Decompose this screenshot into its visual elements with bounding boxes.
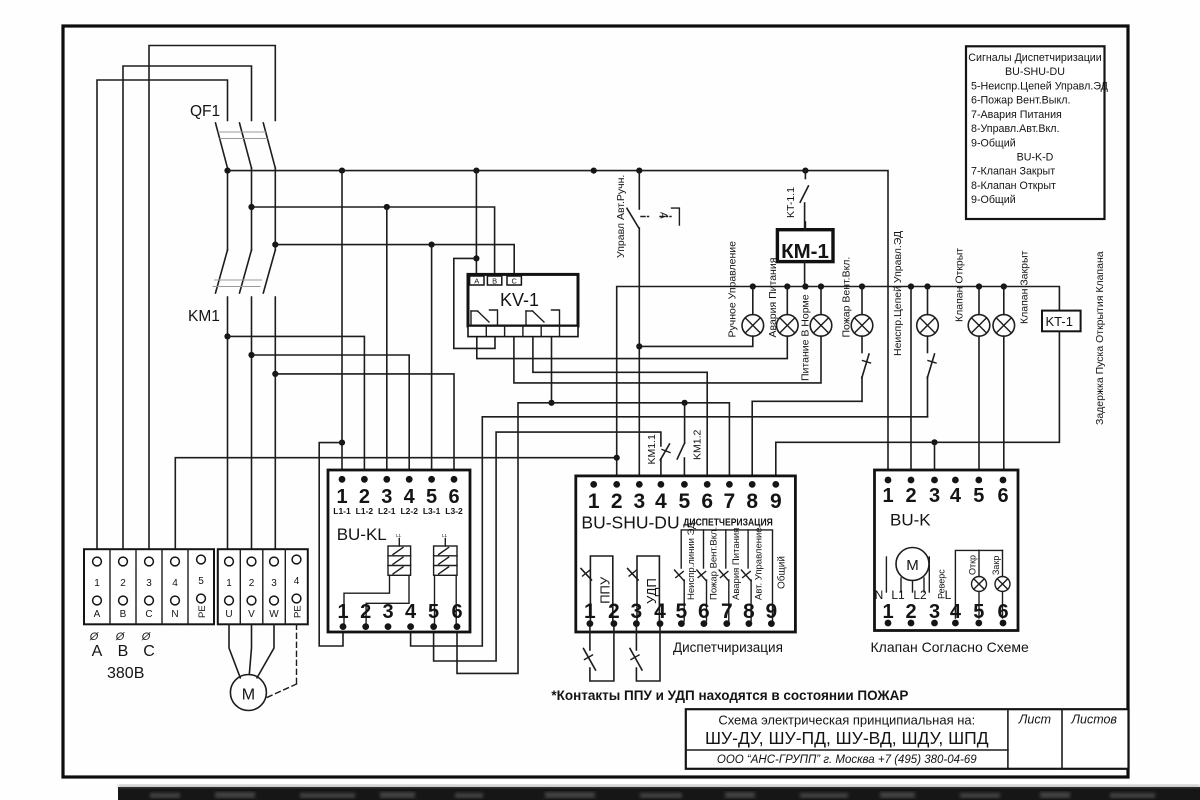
contactor KM1 pole 1 blade bbox=[216, 250, 228, 293]
svg-text:Ø: Ø bbox=[89, 631, 100, 643]
svg-text:A: A bbox=[474, 277, 479, 286]
svg-text:BU-SHU-DU: BU-SHU-DU bbox=[581, 512, 679, 532]
BU-KL bottom terminal numbers bbox=[337, 601, 462, 623]
svg-text:Схема электрическая принципиал: Схема электрическая принципиальная на: bbox=[718, 713, 975, 728]
BU-K top dots bbox=[885, 477, 1007, 484]
BU-KL stack2 left to bottom T5 wire bbox=[434, 575, 436, 626]
svg-text:PE: PE bbox=[293, 605, 304, 618]
svg-text:5: 5 bbox=[428, 601, 439, 623]
contactor KM1 linkage bars bbox=[213, 280, 263, 287]
breaker QF1 pole 3 blade bbox=[263, 123, 275, 168]
BU-KL internal breaker stack 2 bbox=[434, 533, 457, 575]
svg-text:L1-1: L1-1 bbox=[333, 506, 351, 516]
node L3 bus / BU-KL T5 riser bbox=[429, 242, 435, 248]
svg-text:2: 2 bbox=[905, 485, 916, 507]
relay block KV-1 bbox=[468, 274, 578, 326]
BU-SHU-DU top terminal dots bbox=[590, 481, 779, 488]
lamp Pitanie V Norme bbox=[810, 287, 832, 337]
node L1 bus / BU-KL T1 riser bbox=[339, 168, 345, 174]
BU-KL top terminal numbers bbox=[336, 486, 459, 508]
lamp Neispr Tsepey Upravl ED bbox=[917, 287, 939, 337]
switch SA manual-auto blade bbox=[627, 208, 639, 228]
svg-text:4: 4 bbox=[405, 601, 417, 623]
node QF1 pole3 output bbox=[272, 242, 278, 248]
svg-text:Клапан Согласно Схеме: Клапан Согласно Схеме bbox=[871, 639, 1030, 655]
contact KM1.2 blade bbox=[677, 443, 684, 459]
node BU-KL T1 riser branch bbox=[339, 440, 345, 446]
svg-text:Авария Питания: Авария Питания bbox=[767, 258, 779, 338]
wire phase C loop from input terminal 3C to QF1 pole 3 bbox=[149, 46, 275, 550]
svg-text:L1: L1 bbox=[891, 588, 905, 602]
BU-KL stack1 right to bottom T2 wire bbox=[366, 575, 409, 626]
svg-text:KT-1: KT-1 bbox=[1046, 314, 1073, 329]
wire BU-KL T1 branch around block to bottom T1 bbox=[319, 443, 343, 646]
svg-text:С: С bbox=[143, 643, 155, 660]
wire KV-1 A riser bbox=[475, 171, 477, 276]
svg-text:М: М bbox=[242, 687, 255, 704]
contact KM1.1 blade bbox=[660, 444, 670, 460]
svg-text:Листов: Листов bbox=[1070, 713, 1117, 727]
svg-text:C: C bbox=[145, 609, 152, 620]
svg-text:L2: L2 bbox=[913, 588, 927, 602]
wire manual-auto switch column to BU-SHU-DU T3 bbox=[638, 171, 640, 209]
X1 terminal numbers bbox=[94, 576, 204, 589]
wire KV-1 B1 to Avaria Pitaniya lamp bbox=[477, 336, 788, 358]
wire BU-K T3 stub bbox=[934, 442, 936, 480]
svg-text:BU-K: BU-K bbox=[890, 511, 931, 530]
svg-text:1: 1 bbox=[337, 601, 348, 623]
contact KM1.2 stub bbox=[684, 403, 686, 443]
svg-text:ООО “АНС-ГРУПП” г. Москва +7 (: ООО “АНС-ГРУПП” г. Москва +7 (495) 380-0… bbox=[717, 754, 977, 766]
BU-K lamp rail from terminal 4 bbox=[955, 550, 1002, 618]
wire Neispr contact to BU-KL bottom T4 bbox=[411, 417, 928, 646]
breaker QF1 linkage bars bbox=[218, 132, 268, 139]
node N bus / BU-SHU-DU T2 / N line bbox=[614, 455, 620, 461]
BU-K motor terminal labels bbox=[875, 588, 952, 602]
wire X2 V to motor bbox=[249, 624, 251, 674]
svg-text:4: 4 bbox=[654, 600, 666, 623]
svg-text:*Контакты ППУ и УДП находятся: *Контакты ППУ и УДП находятся в состояни… bbox=[551, 688, 908, 703]
contact KT-1.1 stub bbox=[804, 171, 806, 179]
node valve net / BU-K T3 bbox=[931, 439, 937, 445]
svg-text:QF1: QF1 bbox=[190, 103, 220, 120]
svg-text:A: A bbox=[94, 609, 101, 620]
svg-text:6-Пожар Вент.Выкл.: 6-Пожар Вент.Выкл. bbox=[971, 95, 1070, 107]
wire Ruchnoe lamp to switch column bbox=[639, 336, 753, 346]
wire KM1 pole2 to BU-KL T4 bbox=[252, 355, 410, 479]
wire L1 bus after QF1 (y=170.6) to BU-K T1 bbox=[228, 171, 889, 480]
svg-text:Задержка Пуска Открытия Клапан: Задержка Пуска Открытия Клапана bbox=[1094, 251, 1106, 425]
wire KM1.1 to BU-SHU-DU T4 bbox=[660, 459, 662, 484]
svg-text:Реверс: Реверс bbox=[937, 569, 947, 599]
breaker QF1 pole 1 blade bbox=[216, 123, 228, 168]
svg-text:3: 3 bbox=[271, 578, 277, 589]
X1 terminal circles bottom bbox=[93, 594, 206, 605]
wire KV-1 bypass A-branch to KV-1 bottom B1 B2 bbox=[454, 258, 495, 348]
wire KM1 pole1 to BU-KL T2 bbox=[228, 336, 365, 479]
node KM1 pole2 output bbox=[248, 352, 254, 358]
svg-text:380В: 380В bbox=[107, 665, 144, 682]
contact KT-1.1 blade bbox=[800, 186, 808, 202]
BU-K lamp Zakr bbox=[995, 577, 1010, 619]
svg-text:Неиспр.линии ЭД: Неиспр.линии ЭД bbox=[686, 522, 697, 600]
wire N lamp bus bbox=[617, 287, 1060, 485]
wire QF1 pole1 to KM1 pole1 bbox=[227, 168, 229, 250]
motor terminal block X2 bbox=[218, 549, 308, 624]
svg-text:7: 7 bbox=[721, 600, 733, 623]
wire Klapan Otkryt lamp to BU-K T5 bbox=[978, 336, 980, 480]
svg-text:5: 5 bbox=[973, 485, 984, 507]
svg-text:ШУ-ДУ, ШУ-ПД, ШУ-ВД, ШДУ, ШПД: ШУ-ДУ, ШУ-ПД, ШУ-ВД, ШДУ, ШПД bbox=[705, 728, 989, 748]
svg-text:Клапан Закрыт: Клапан Закрыт bbox=[1019, 251, 1031, 324]
svg-text:3: 3 bbox=[631, 600, 643, 623]
svg-text:3: 3 bbox=[146, 578, 152, 589]
svg-text:BU-SHU-DU: BU-SHU-DU bbox=[1005, 66, 1065, 78]
X1 phase crimp symbols bbox=[89, 631, 152, 643]
switch SA dash-dot link and A-symbol bbox=[641, 208, 679, 225]
node KV-1 A branch bbox=[473, 255, 479, 261]
svg-text:Клапан Открыт: Клапан Открыт bbox=[954, 248, 966, 322]
BU-K bottom dots bbox=[885, 620, 1007, 627]
svg-text:2: 2 bbox=[249, 578, 255, 589]
node switch column / ruchnoe lamp bbox=[636, 343, 642, 349]
svg-text:9: 9 bbox=[770, 490, 782, 513]
svg-text:М: М bbox=[906, 557, 919, 574]
svg-text:N: N bbox=[171, 609, 178, 620]
contactor coil KM-1 box bbox=[777, 230, 833, 263]
svg-text:7-Авария Питания: 7-Авария Питания bbox=[971, 109, 1062, 121]
BU-SHU-DU bottom numbers bbox=[584, 600, 777, 623]
X2 terminal circles top bbox=[225, 555, 301, 566]
svg-text:A: A bbox=[658, 212, 669, 219]
node L1 bus / BU-SHU-DU T1 riser bbox=[591, 168, 597, 174]
module BU-KL box bbox=[328, 470, 470, 632]
svg-text:Авария Питания: Авария Питания bbox=[731, 528, 742, 600]
module BU-SHU-DU box bbox=[576, 476, 796, 632]
wire Pozhar contact to BU-SHU-DU T8 bbox=[752, 401, 862, 484]
svg-text:3: 3 bbox=[929, 485, 940, 507]
X2 terminal numbers bbox=[226, 576, 300, 589]
wire X2 U to motor bbox=[229, 624, 240, 678]
KV-1 internal contact 1 bbox=[471, 310, 498, 325]
KV-1 internal contact 2 bbox=[526, 310, 560, 325]
svg-text:2: 2 bbox=[360, 601, 371, 623]
svg-text:6: 6 bbox=[997, 485, 1008, 507]
BU-SHU-DU bottom dots bbox=[587, 620, 775, 627]
svg-text:А: А bbox=[92, 643, 103, 660]
wire KM1 pole3 to BU-KL T6 bbox=[275, 374, 454, 479]
node QF1 pole2 output bbox=[248, 204, 254, 210]
svg-text:1: 1 bbox=[94, 578, 100, 589]
node B5 junction bbox=[548, 400, 554, 406]
label A B C bbox=[92, 643, 155, 660]
svg-text:W: W bbox=[269, 609, 279, 620]
wire QF1 pole3 to KM1 pole3 bbox=[274, 168, 276, 250]
contactor KM1 pole 2 blade bbox=[240, 250, 252, 293]
svg-text:8-Управл.Авт.Вкл.: 8-Управл.Авт.Вкл. bbox=[971, 123, 1060, 135]
svg-text:5: 5 bbox=[679, 490, 691, 513]
svg-text:KM1.1: KM1.1 bbox=[646, 434, 658, 465]
dispatch contact 5 bbox=[675, 570, 685, 621]
wire BU-K T2 from N bus bbox=[910, 287, 912, 481]
external UDP contact below box bbox=[630, 627, 660, 681]
svg-text:V: V bbox=[248, 609, 255, 620]
svg-text:5: 5 bbox=[426, 486, 437, 508]
svg-text:Диспетчиризация: Диспетчиризация bbox=[673, 640, 783, 655]
svg-text:L2-1: L2-1 bbox=[378, 506, 396, 516]
svg-text:Ø: Ø bbox=[141, 631, 152, 643]
svg-text:Закр: Закр bbox=[991, 556, 1001, 575]
svg-text:Ручное Управление: Ручное Управление bbox=[727, 241, 739, 338]
wire Klapan Zakryt lamp to BU-K T6 bbox=[1003, 336, 1005, 480]
svg-text:Пожар Вент.Вкл.: Пожар Вент.Вкл. bbox=[841, 257, 853, 338]
wire KM1 pole1 stub to motor terminal U bbox=[227, 297, 229, 549]
svg-text:Лист: Лист bbox=[1018, 713, 1051, 727]
node L1 bus / KV-1 A riser bbox=[473, 168, 479, 174]
svg-text:Управл Авт.Ручн.: Управл Авт.Ручн. bbox=[615, 175, 627, 258]
node L2 bus / BU-KL T3 riser bbox=[384, 204, 390, 210]
svg-text:2: 2 bbox=[611, 490, 623, 513]
X1 terminal circles top bbox=[93, 555, 206, 566]
wire KT-1 to valve net bbox=[776, 331, 1060, 484]
node KM1 pole1 output bbox=[224, 333, 230, 339]
svg-text:2: 2 bbox=[120, 578, 126, 589]
KV-1 bottom terminal row bbox=[468, 326, 578, 337]
X1 terminal letters bbox=[94, 609, 179, 620]
svg-text:Ø: Ø bbox=[115, 631, 126, 643]
svg-text:KM1: KM1 bbox=[188, 308, 220, 325]
contactor KM1 pole 3 blade bbox=[263, 250, 275, 293]
svg-text:C: C bbox=[511, 277, 517, 286]
wire KM1 pole2 stub to motor terminal V bbox=[251, 297, 253, 549]
svg-text:7-Клапан Закрыт: 7-Клапан Закрыт bbox=[971, 166, 1055, 178]
wire BU-KL T3 riser bbox=[386, 207, 388, 479]
motor M bbox=[230, 675, 266, 711]
wire BU-KL T1 riser bbox=[341, 171, 343, 480]
svg-text:Сигналы Диспетчиризации: Сигналы Диспетчиризации bbox=[968, 52, 1102, 64]
svg-text:1: 1 bbox=[336, 486, 347, 508]
svg-text:BU-K-D: BU-K-D bbox=[1017, 152, 1054, 164]
svg-text:9-Общий: 9-Общий bbox=[971, 194, 1016, 206]
svg-text:Общий: Общий bbox=[776, 556, 788, 589]
svg-text:1: 1 bbox=[588, 490, 600, 513]
dashed PE wire to motor bbox=[267, 624, 297, 697]
dispatch contact 7 bbox=[719, 530, 729, 621]
lamp Klapan Zakryt bbox=[993, 287, 1015, 337]
svg-text:L3-2: L3-2 bbox=[445, 506, 463, 516]
svg-text:L3-1: L3-1 bbox=[423, 506, 441, 516]
wire KT-1.1 to KM-1 bbox=[804, 222, 806, 230]
svg-text:N: N bbox=[875, 588, 884, 602]
svg-text:KM1.2: KM1.2 bbox=[692, 429, 704, 460]
node L1 bus / manual-auto switch bbox=[636, 168, 642, 174]
svg-text:6: 6 bbox=[701, 490, 713, 513]
svg-text:B: B bbox=[120, 609, 127, 620]
lamp Avaria Pitaniya bbox=[777, 287, 799, 337]
svg-text:8: 8 bbox=[746, 490, 758, 513]
node KM1.2 tap bbox=[682, 400, 688, 406]
wire phase B loop from input terminal 2B to QF1 pole 2 bbox=[123, 66, 252, 549]
svg-text:Питание В Норме: Питание В Норме bbox=[800, 294, 812, 381]
dispatch contact 8 bbox=[741, 530, 751, 621]
X2 terminal letters bbox=[225, 609, 279, 620]
BU-K valve motor M bbox=[896, 548, 929, 581]
svg-text:3: 3 bbox=[633, 490, 645, 513]
svg-text:КМ-1: КМ-1 bbox=[781, 240, 829, 263]
svg-text:L1-2: L1-2 bbox=[356, 506, 374, 516]
svg-text:8-Клапан Открыт: 8-Клапан Открыт bbox=[971, 180, 1056, 192]
external PPU contact below box bbox=[584, 627, 614, 681]
svg-text:7: 7 bbox=[724, 490, 736, 513]
wire KV-1 B4 to BU-SHU-DU T6 bbox=[533, 337, 707, 485]
svg-text:9-Общий: 9-Общий bbox=[971, 137, 1016, 149]
BU-SHU-DU top numbers bbox=[588, 490, 782, 513]
wire BU-KL bottom T6 riser to T7 line bbox=[457, 403, 729, 674]
BU-KL stack1 left to bottom T1 wire bbox=[344, 575, 390, 626]
lamp Ruchnoe Upravlenie bbox=[742, 287, 764, 337]
svg-text:2: 2 bbox=[359, 486, 370, 508]
svg-text:5-Неиспр.Цепей Управл.ЭД: 5-Неиспр.Цепей Управл.ЭД bbox=[971, 81, 1109, 93]
svg-text:L2-2: L2-2 bbox=[400, 506, 418, 516]
svg-text:4: 4 bbox=[404, 486, 416, 508]
wire KV-1 B3 to Pitanie V Norme lamp bbox=[514, 336, 821, 383]
BU-KL internal breaker stack 1 bbox=[388, 533, 411, 575]
wire KM-1 to N bus bbox=[804, 262, 806, 287]
wire KV-1 B5 stub to L-net bbox=[551, 337, 553, 403]
svg-text:6: 6 bbox=[448, 486, 459, 508]
svg-text:Пожар Вент.Вкл.: Пожар Вент.Вкл. bbox=[709, 527, 720, 600]
svg-text:3: 3 bbox=[381, 486, 392, 508]
svg-text:BU-KL: BU-KL bbox=[337, 525, 387, 544]
title block bbox=[686, 709, 1129, 769]
node QF1 pole1 output bbox=[224, 168, 230, 174]
svg-text:KV-1: KV-1 bbox=[500, 290, 539, 310]
svg-text:1: 1 bbox=[584, 600, 596, 623]
lamp Pozhar Vent Vkl bbox=[851, 287, 873, 337]
svg-text:1: 1 bbox=[882, 485, 893, 507]
dispatch bracket rail bbox=[681, 530, 772, 621]
breaker QF1 pole 2 blade bbox=[240, 123, 252, 168]
svg-text:L1: L1 bbox=[396, 533, 402, 538]
svg-text:KT-1.1: KT-1.1 bbox=[785, 187, 797, 218]
lamp Klapan Otkryt bbox=[968, 287, 990, 337]
svg-text:В: В bbox=[118, 643, 129, 660]
svg-text:1: 1 bbox=[226, 578, 232, 589]
wire X2 W to motor bbox=[257, 624, 274, 678]
svg-text:5: 5 bbox=[676, 600, 688, 623]
svg-text:4: 4 bbox=[172, 578, 178, 589]
timer KT-1 box bbox=[1042, 311, 1081, 332]
svg-text:PE: PE bbox=[197, 605, 208, 618]
BU-K motor leads bbox=[886, 557, 929, 592]
contact under Pozhar lamp bbox=[862, 336, 871, 401]
contact under Neispr lamp bbox=[927, 336, 936, 417]
wire N line from input terminal N bbox=[175, 458, 616, 549]
bottom crop shadow bar bbox=[118, 785, 1200, 800]
BU-KL stack2 right to bottom T6 wire bbox=[455, 575, 457, 626]
module BU-K box bbox=[875, 470, 1019, 631]
svg-text:5: 5 bbox=[198, 576, 204, 587]
BU-KL terminal pin labels bbox=[333, 506, 463, 516]
BU-SHU-DU UDP loop bbox=[628, 556, 660, 624]
svg-text:Авт. Управление: Авт. Управление bbox=[754, 527, 765, 600]
dispatch contact 6 bbox=[697, 530, 707, 621]
wire QF1 pole2 to KM1 pole2 bbox=[251, 168, 253, 250]
node KM1 pole3 output bbox=[272, 371, 278, 377]
BU-KL top terminal dots bbox=[339, 476, 458, 483]
svg-text:8: 8 bbox=[743, 600, 755, 623]
svg-text:3: 3 bbox=[382, 601, 393, 623]
svg-text:6: 6 bbox=[698, 600, 710, 623]
BU-KL bottom terminal dots bbox=[340, 623, 461, 630]
wire L3 bus after QF1 (y=244.6) to KV-1 C bbox=[275, 245, 514, 276]
svg-text:2: 2 bbox=[608, 600, 620, 623]
input terminal block X1 bbox=[84, 549, 214, 624]
wire L2 bus after QF1 (y=207) to KV-1 B bbox=[252, 207, 495, 276]
wire BU-KL T5 riser bbox=[431, 245, 433, 480]
X2 terminal circles bottom bbox=[225, 594, 301, 605]
wire KM1.2 to BU-SHU-DU T5 bbox=[683, 458, 685, 484]
node L1 bus / KT-1.1 bbox=[802, 168, 808, 174]
BU-SHU-DU PPU loop bbox=[581, 556, 613, 624]
wire KV-1 B1 stub bbox=[476, 337, 478, 349]
BU-K lamp Otkr bbox=[972, 577, 987, 619]
BU-K bottom numbers bbox=[882, 601, 1008, 623]
info box Signaly Dispetcherizatsii bbox=[966, 46, 1109, 219]
svg-text:6: 6 bbox=[451, 601, 462, 623]
svg-text:4: 4 bbox=[655, 490, 667, 513]
svg-text:Откр: Откр bbox=[968, 555, 978, 575]
wire BU-KL bottom T5 riser to KM1.1 bbox=[434, 432, 661, 661]
BU-K top numbers bbox=[882, 485, 1008, 507]
svg-text:B: B bbox=[492, 277, 497, 286]
svg-text:Неиспр.Цепей Управл.ЭД: Неиспр.Цепей Управл.ЭД bbox=[892, 231, 904, 356]
svg-text:4: 4 bbox=[294, 576, 300, 587]
node N bus lamp taps bbox=[750, 283, 1007, 289]
svg-text:4: 4 bbox=[950, 485, 962, 507]
wire KM1 pole3 stub to motor terminal W bbox=[274, 297, 276, 549]
svg-text:L1: L1 bbox=[442, 533, 448, 538]
BU-K lamp rail drops bbox=[979, 550, 1003, 576]
svg-text:U: U bbox=[225, 609, 232, 620]
wire phase A loop from input terminal 1A to QF1 pole 1 bbox=[97, 80, 228, 549]
svg-text:9: 9 bbox=[766, 600, 778, 623]
